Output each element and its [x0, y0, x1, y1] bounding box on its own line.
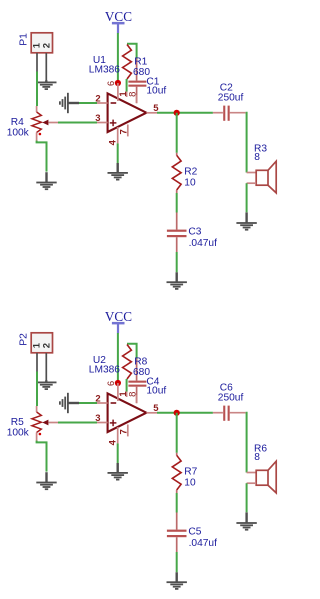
wire VCC to pin 6 — [117, 333, 119, 383]
pin 2 stub — [97, 102, 108, 104]
capacitor C1 10uf — [128, 59, 146, 104]
ground below op-amp pin 4 — [108, 163, 128, 181]
ground below potentiometer — [36, 472, 56, 490]
pin 2 stub — [97, 402, 108, 404]
potentiometer R5 100k — [32, 412, 41, 433]
svg-text:2: 2 — [42, 43, 53, 48]
ground at pin 2 (sideways) — [59, 93, 79, 113]
svg-text:10: 10 — [184, 178, 196, 189]
pin 3 stub — [97, 422, 108, 424]
svg-text:10uf: 10uf — [146, 86, 166, 97]
pot wiper lead — [48, 122, 58, 124]
pin 4 stub — [117, 127, 119, 143]
capacitor C6 250uf — [213, 406, 246, 421]
svg-text:LM386: LM386 — [89, 65, 120, 76]
wire speaker to ground — [246, 183, 248, 212]
ground below speaker — [236, 212, 256, 230]
wire ground to pin 2 — [79, 102, 97, 104]
pot wiper arrow — [42, 120, 48, 126]
wire pin 5 to C out — [157, 112, 213, 114]
speaker R3 bottom pin — [247, 182, 257, 184]
svg-text:R2: R2 — [184, 167, 197, 178]
wire R to C — [176, 193, 178, 213]
svg-text:P1: P1 — [18, 33, 29, 46]
pot top lead — [36, 406, 38, 412]
wire VCC to pin 6 — [117, 33, 119, 83]
op-amp plus input mark — [110, 420, 117, 427]
wire C to ground — [176, 552, 178, 572]
resistor R7 10 — [172, 455, 181, 490]
connector pin 1 lead — [36, 53, 38, 72]
svg-text:8: 8 — [254, 452, 260, 463]
pin 3 stub — [97, 122, 108, 124]
pin 1 stub — [126, 392, 128, 398]
connector pin 2 lead — [45, 353, 47, 383]
ground below C5 — [167, 572, 187, 590]
pin 7 stub — [127, 125, 129, 137]
pot bottom lead — [36, 133, 38, 142]
speaker R6 body — [256, 461, 276, 493]
svg-text:R7: R7 — [184, 467, 197, 478]
speaker R6 bottom pin — [247, 482, 257, 484]
resistor R1 680 — [123, 45, 132, 80]
svg-text:2: 2 — [42, 343, 53, 348]
svg-text:250uf: 250uf — [218, 92, 244, 103]
wire pot bottom to ground — [37, 441, 47, 472]
svg-text:.047uf: .047uf — [189, 538, 217, 549]
pin 8 stub — [136, 95, 138, 103]
svg-text:.047uf: .047uf — [189, 238, 217, 249]
ground at P1 pin 2 — [36, 80, 56, 90]
pin 5 stub — [146, 412, 157, 414]
pot wiper arrow — [42, 420, 48, 426]
ground below op-amp pin 4 — [108, 463, 128, 481]
R bottom lead — [176, 490, 178, 493]
wire R top bend to C top — [127, 344, 137, 359]
supply symbol VCC — [112, 22, 125, 33]
speaker R3 top pin — [247, 172, 257, 174]
wire R bottom to pin 1 — [126, 379, 128, 392]
junction node VCC/pin6 — [115, 380, 121, 386]
op-amp U1 LM386 triangle — [108, 93, 147, 132]
wire junction to R — [176, 413, 178, 453]
wire C to ground — [176, 252, 178, 272]
op-amp minus input mark — [111, 102, 117, 104]
svg-text:100k: 100k — [7, 128, 30, 139]
wire C out to speaker — [245, 413, 248, 473]
svg-text:680: 680 — [133, 67, 150, 78]
connector P2 body — [31, 333, 52, 353]
resistor R8 680 — [123, 345, 132, 380]
op-amp plus input mark — [110, 120, 117, 127]
pot origin dot — [39, 133, 42, 136]
pin 6 stub — [117, 83, 119, 101]
pot top lead — [36, 106, 38, 112]
junction node output — [174, 410, 180, 416]
pin 6 stub — [117, 383, 119, 401]
wire P2 pin1 to pot top — [36, 372, 38, 407]
speaker R3 body — [256, 161, 276, 193]
svg-text:C5: C5 — [188, 527, 201, 538]
R bottom lead — [176, 190, 178, 193]
svg-text:6: 6 — [106, 81, 116, 86]
svg-text:8: 8 — [127, 92, 138, 97]
capacitor C5 .047uf — [167, 513, 187, 553]
pin 5 stub — [146, 112, 157, 114]
svg-text:1: 1 — [31, 42, 42, 48]
supply symbol VCC — [112, 322, 125, 333]
wire ground to pin 2 — [79, 402, 97, 404]
wire wiper to pin 3 — [58, 422, 97, 424]
svg-text:680: 680 — [133, 367, 150, 378]
wire P1 pin1 to pot top — [36, 72, 38, 107]
op-amp minus input mark — [111, 402, 117, 404]
svg-text:6: 6 — [106, 381, 116, 386]
wire pin 5 to C out — [157, 412, 213, 414]
wire R bottom to pin 1 — [126, 79, 128, 92]
ground at pin 2 (sideways) — [59, 393, 79, 413]
resistor R2 10 — [172, 155, 181, 190]
pin 1 stub — [126, 92, 128, 98]
wire pin 4 to ground — [117, 443, 119, 463]
svg-text:C3: C3 — [188, 227, 201, 238]
R top lead — [176, 153, 178, 156]
potentiometer R4 100k — [32, 112, 41, 133]
svg-text:10: 10 — [184, 478, 196, 489]
op-amp U2 LM386 triangle — [108, 393, 147, 432]
junction node output — [174, 110, 180, 116]
ground below C3 — [167, 272, 187, 290]
capacitor C2 250uf — [213, 106, 246, 121]
ground below potentiometer — [36, 172, 56, 190]
wire R to C — [176, 493, 178, 513]
wire wiper to pin 3 — [58, 122, 97, 124]
svg-text:250uf: 250uf — [218, 392, 244, 403]
svg-text:10uf: 10uf — [146, 386, 166, 397]
wire junction to R — [176, 113, 178, 153]
capacitor C4 10uf — [128, 359, 146, 404]
capacitor C3 .047uf — [167, 213, 187, 253]
pot wiper lead — [48, 422, 58, 424]
svg-text:7: 7 — [119, 429, 130, 434]
pot bottom lead — [36, 433, 38, 442]
connector P1 body — [31, 33, 52, 53]
svg-text:LM386: LM386 — [89, 365, 120, 376]
connector pin 2 lead — [45, 53, 47, 83]
svg-text:1: 1 — [31, 342, 42, 348]
svg-text:VCC: VCC — [105, 9, 132, 24]
wire C out to speaker — [245, 113, 248, 173]
junction node VCC/pin6 — [115, 80, 121, 86]
ground below speaker — [236, 512, 256, 530]
pin 7 stub — [127, 425, 129, 437]
speaker R6 top pin — [247, 472, 257, 474]
wire speaker to ground — [246, 483, 248, 512]
svg-text:R4: R4 — [11, 117, 24, 128]
ground at P2 pin 2 — [36, 380, 56, 390]
svg-text:8: 8 — [254, 152, 260, 163]
svg-text:VCC: VCC — [105, 309, 132, 324]
wire pot bottom to ground — [37, 141, 47, 172]
svg-text:8: 8 — [127, 392, 138, 397]
connector pin 1 lead — [36, 353, 38, 372]
R top lead — [176, 453, 178, 456]
wire pin 4 to ground — [117, 143, 119, 163]
wire R top bend to C top — [127, 44, 137, 59]
svg-text:P2: P2 — [18, 333, 29, 346]
svg-text:100k: 100k — [7, 428, 30, 439]
pin 4 stub — [117, 427, 119, 443]
svg-text:7: 7 — [119, 129, 130, 134]
pot origin dot — [39, 433, 42, 436]
svg-text:R5: R5 — [11, 417, 24, 428]
pin 8 stub — [136, 395, 138, 403]
